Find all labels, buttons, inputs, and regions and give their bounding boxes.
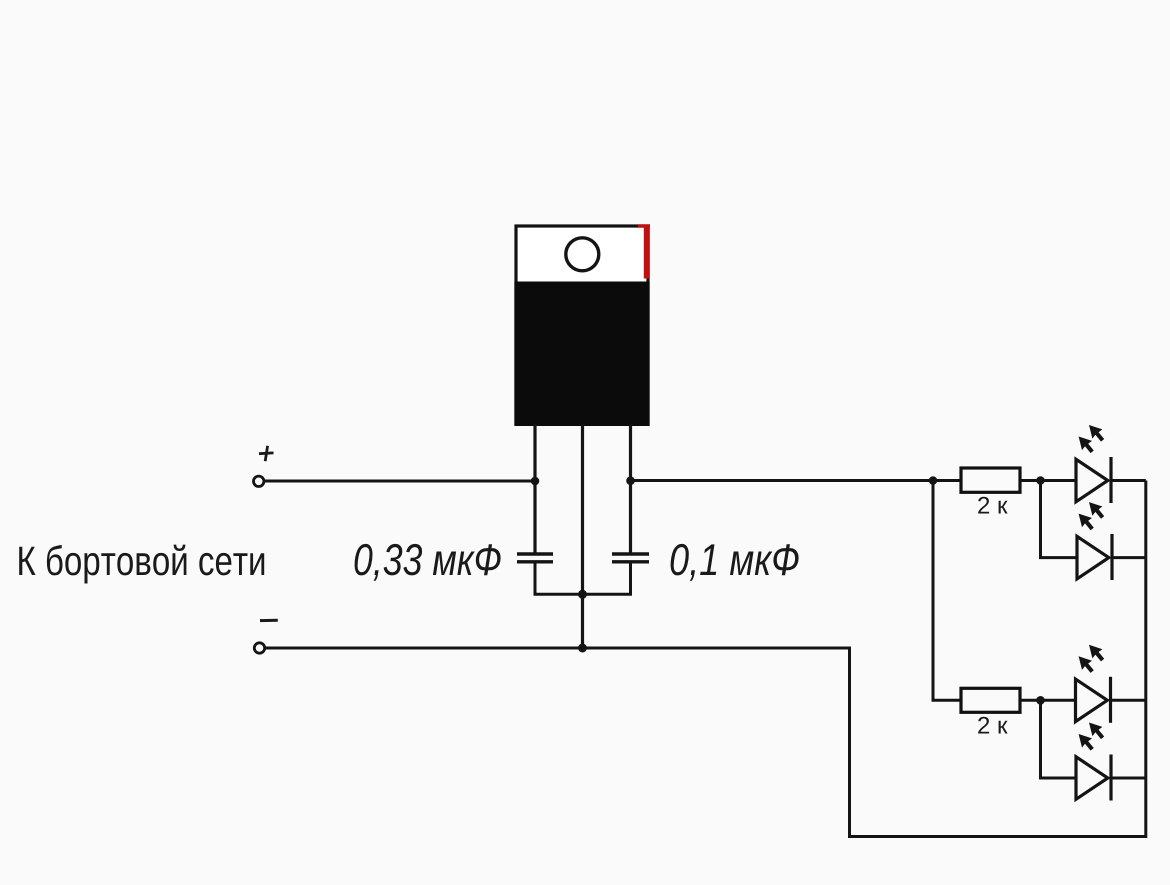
red marking on regulator tab right edge [638, 225, 650, 278]
wire: feed to resistor R2 [933, 481, 961, 701]
node: branch to resistor R2 feed [929, 476, 938, 485]
voltage regulator U1 mounting hole [566, 238, 599, 271]
resistor R1 value label 2 к [978, 497, 1007, 514]
wire: C2 bottom lead [583, 564, 631, 595]
wire: LED4 cathode to right rail [1111, 777, 1146, 780]
wire: U1 output to LED network [631, 479, 962, 482]
node: capacitor common junction [578, 590, 587, 599]
wire: R2 to LED3 [1020, 699, 1076, 702]
node: output pin junction [626, 476, 635, 485]
pin 2 leg (ground) of U1 [581, 424, 584, 648]
LED VD4 triangle [1076, 757, 1108, 800]
node: input pin junction [531, 477, 540, 486]
minus input terminal [254, 643, 264, 653]
wire: R1 to LED1 [1020, 479, 1076, 482]
voltage regulator U1 (TO-220 package) body outline [516, 226, 648, 424]
minus terminal label [260, 619, 278, 622]
LED VD2 triangle [1077, 536, 1109, 579]
wire: minus rail [265, 481, 1146, 837]
wire: branch down to LED2 [1041, 481, 1078, 558]
capacitor C1 value label 0,33 мкФ [355, 544, 501, 581]
resistor R2 value label 2 к [978, 717, 1007, 734]
LED VD3 emission arrows [1079, 645, 1105, 673]
plus input terminal [254, 476, 264, 486]
resistor R1 [961, 468, 1020, 492]
wire: plus terminal to U1 input pin [265, 480, 536, 483]
node: R2 output junction [1036, 696, 1045, 705]
capacitor C2 plates [612, 554, 649, 562]
LED VD4 emission arrows [1079, 723, 1105, 751]
wire: LED1 cathode to right rail [1111, 479, 1146, 482]
pin 1 leg (input) of U1 [533, 424, 536, 553]
capacitor C1 plates [517, 554, 553, 562]
wire: LED2 cathode to right rail [1112, 556, 1146, 559]
wire: C1 bottom lead [535, 564, 583, 595]
resistor R2 [961, 688, 1020, 712]
node: R1 output junction [1036, 476, 1045, 485]
wire: LED3 cathode to right rail [1111, 699, 1146, 702]
LED VD1 cathode bar [1109, 457, 1112, 503]
capacitor C2 value label 0,1 мкФ [671, 544, 799, 581]
LED VD3 triangle [1076, 679, 1108, 722]
voltage regulator U1 black plastic body [514, 282, 649, 427]
pin 3 leg (output) of U1 [629, 424, 632, 553]
LED VD1 emission arrows [1079, 425, 1105, 453]
LED VD1 triangle [1076, 459, 1108, 502]
LED VD4 cathode bar [1109, 755, 1112, 801]
LED VD3 cathode bar [1109, 677, 1112, 723]
text label К бортовой сети [19, 545, 264, 584]
wire: branch down to LED4 [1041, 700, 1077, 778]
node: ground pin junction on minus rail [578, 644, 587, 653]
LED VD2 cathode bar [1110, 534, 1113, 580]
plus terminal label [259, 446, 274, 461]
LED VD2 emission arrows [1079, 502, 1105, 530]
